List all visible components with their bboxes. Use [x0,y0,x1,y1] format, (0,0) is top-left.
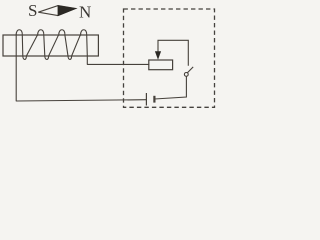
dashed boundary box [124,9,215,107]
svg-text:N: N [79,3,91,22]
wiper arrow head [155,51,161,60]
wire: bottom left from coil to battery [16,100,146,101]
switch lever (open) [187,67,193,73]
wire: battery to switch [154,76,186,99]
wire: switch fixed contact up to wiper loop [158,40,188,66]
solenoid core bar [3,35,98,56]
coil right lead wire [87,56,149,64]
svg-text:S: S [28,1,37,20]
battery short plate (-) [153,96,155,103]
battery long plate (+) [145,93,147,106]
switch pivot circle [184,73,188,77]
compass needle (left half white, right half black) [38,6,75,16]
coil turn 3 [59,30,80,60]
coil turn 1 [16,30,37,60]
coil turn 4 [81,30,88,56]
solenoid coil winding [16,30,149,101]
rheostat body [149,60,173,70]
coil turn 2 [38,30,59,60]
coil left lead wire [15,35,17,102]
